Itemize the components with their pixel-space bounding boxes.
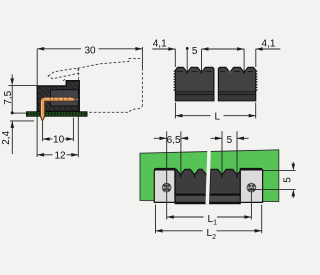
dimension 10	[43, 118, 74, 142]
right mounting flange	[240, 169, 262, 203]
groove lines front	[175, 194, 240, 196]
front view right header segment	[209, 169, 240, 203]
svg-text:6,5: 6,5	[167, 135, 181, 146]
top view left header segment	[175, 67, 214, 100]
dimension L	[175, 103, 255, 119]
svg-text:4,1: 4,1	[262, 38, 276, 49]
dashed locking lever	[48, 68, 79, 79]
pin ticks in front notches	[181, 174, 237, 178]
front view left header segment	[175, 169, 207, 203]
svg-text:2,4: 2,4	[1, 130, 12, 144]
groove lines	[175, 92, 214, 94]
dimension 5 (front pitch)	[211, 131, 249, 174]
dashed mating plug outline	[48, 59, 142, 113]
svg-text:L: L	[215, 112, 221, 123]
break band	[206, 149, 211, 205]
solder pin (copper, right angle)	[41, 97, 76, 121]
dimension 2,4 (bottom left)	[10, 121, 34, 154]
svg-text:4,1: 4,1	[153, 38, 167, 49]
dimension 30 (top)	[37, 47, 142, 86]
dimension 5 (top view pitch)	[187, 49, 244, 71]
bottom borders	[175, 202, 240, 204]
pin segment ticks	[50, 97, 67, 101]
dimension 4,1 (left)	[152, 49, 175, 67]
side view housing (sectioned, hatched)	[37, 81, 79, 112]
left mounting flange	[154, 169, 175, 203]
dimension L1	[167, 188, 252, 220]
svg-text:7,5: 7,5	[3, 90, 14, 104]
svg-text:5: 5	[192, 46, 198, 57]
svg-text:5: 5	[283, 177, 294, 183]
housing cavity	[51, 90, 79, 106]
dimension 7,5 (left)	[9, 75, 38, 114]
svg-text:12: 12	[54, 150, 66, 161]
left screw	[162, 183, 171, 192]
contact slot line	[74, 99, 79, 101]
svg-text:5: 5	[227, 135, 233, 146]
pin tips in notches	[186, 71, 188, 74]
svg-text:10: 10	[53, 135, 65, 146]
right screw	[247, 183, 256, 192]
dimension 6,5	[154, 131, 189, 202]
serrated left edge	[174, 71, 176, 92]
dimension 5 (vertical right)	[251, 162, 295, 198]
dimension 4,1 (right)	[244, 49, 280, 71]
PCB strip (side view)	[27, 112, 88, 116]
dimension L2	[156, 205, 262, 234]
top view right header segment	[218, 67, 255, 100]
pin highlight	[45, 97, 72, 99]
serrated right edge	[256, 71, 258, 92]
svg-text:30: 30	[84, 45, 96, 56]
pin barbs	[50, 96, 55, 97]
face edge dashes	[177, 71, 212, 73]
dimension 12	[37, 112, 78, 157]
green PCB	[140, 150, 279, 202]
